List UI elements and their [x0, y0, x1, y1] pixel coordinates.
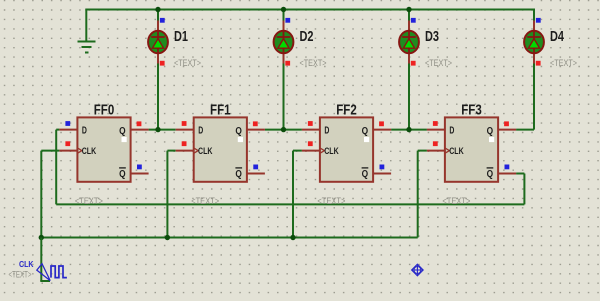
wire FF0 clock riser	[40, 151, 42, 239]
svg-text:CLK: CLK	[324, 146, 339, 156]
svg-text:<TEXT>: <TEXT>	[442, 196, 470, 206]
svg-text:D: D	[449, 125, 454, 137]
FF0 marker CLK pin	[65, 141, 70, 146]
FF1 marker Q pin	[253, 121, 258, 126]
wire D1 top riser	[157, 10, 159, 21]
wire feedback to FF0 D	[56, 129, 59, 131]
LED D1	[148, 21, 168, 64]
wire FF0 clock feed	[41, 150, 59, 152]
FF2 pin Qbar	[373, 173, 391, 175]
wire D3 cathode riser	[408, 64, 410, 130]
FF1 clock triangle	[194, 148, 199, 153]
svg-text:D3: D3	[425, 29, 439, 45]
FF2 clock triangle	[320, 148, 325, 153]
svg-text:<TEXT>: <TEXT>	[191, 196, 219, 206]
FF0 marker Qbar pin (blue)	[137, 165, 142, 170]
junction clock rail	[165, 235, 170, 240]
wire FF0 Q to next stage	[149, 129, 176, 131]
FF2 marker Qbar pin (blue)	[380, 165, 385, 170]
junction rail/D2	[281, 7, 286, 12]
wire D2 top riser	[283, 10, 285, 21]
pin marker D4 anode (blue)	[536, 18, 541, 23]
svg-text:<TEXT>: <TEXT>	[550, 58, 577, 68]
wire FF1 Q to next stage	[265, 129, 302, 131]
FF0 marker D pin	[65, 121, 70, 126]
FF3 marker CLK pin	[433, 141, 438, 146]
svg-text:D1: D1	[174, 29, 188, 45]
FF0 pin Q	[131, 129, 149, 131]
D flip-flop FF1 body	[194, 117, 247, 181]
wire feedback right vertical	[523, 174, 525, 205]
FF1 marker CLK pin	[182, 141, 187, 146]
FF2 pin D	[302, 129, 320, 131]
wire feedback FF3 Qbar stub	[516, 173, 524, 175]
junction node Q0	[155, 127, 160, 132]
FF3 marker D pin	[433, 121, 438, 126]
svg-text:Q: Q	[362, 125, 369, 137]
FF3 pin Qbar	[498, 173, 516, 175]
D flip-flop FF3 body	[445, 117, 498, 181]
svg-text:<TEXT>: <TEXT>	[425, 58, 452, 68]
junction clock rail	[39, 235, 44, 240]
LED D2	[274, 21, 294, 64]
FF0 internal state marker (white)	[122, 137, 127, 142]
svg-text:D: D	[82, 125, 87, 137]
svg-text:FF0: FF0	[94, 103, 115, 119]
FF3 marker Qbar pin (blue)	[505, 165, 510, 170]
junction node Q1	[281, 127, 286, 132]
pin marker D2 anode (blue)	[285, 18, 290, 23]
junction node Q2	[406, 127, 411, 132]
pin marker D1 anode (blue)	[160, 18, 165, 23]
wire FF3 clock riser	[417, 151, 419, 238]
svg-text:<TEXT>: <TEXT>	[300, 58, 327, 68]
FF3 internal state marker (white)	[489, 137, 494, 142]
wire D3 top riser	[408, 10, 410, 21]
junction clock rail	[290, 235, 295, 240]
FF1 pin D	[176, 129, 194, 131]
FF2 marker CLK pin	[308, 141, 313, 146]
svg-text:Q: Q	[487, 125, 494, 137]
svg-text:FF1: FF1	[210, 103, 231, 119]
FF2 pin Q	[373, 129, 391, 131]
wire feedback left vertical	[55, 130, 57, 205]
junction rail/D1	[155, 7, 160, 12]
pin marker D1 cathode (red)	[160, 61, 165, 66]
svg-text:D: D	[324, 125, 329, 137]
LED D3	[399, 21, 419, 64]
FF0 pin D	[59, 129, 77, 131]
wire FF2 clock feed	[293, 150, 302, 152]
pin marker D3 cathode (red)	[411, 61, 416, 66]
FF0 clock triangle	[77, 148, 82, 153]
FF0 pin CLK	[59, 150, 77, 152]
junction rail/D3	[406, 7, 411, 12]
svg-text:D: D	[198, 125, 203, 137]
FF2 internal state marker (white)	[364, 137, 369, 142]
wire clock generator drop	[40, 238, 42, 282]
FF0 pin Qbar	[131, 173, 149, 175]
svg-text:CLK: CLK	[198, 146, 213, 156]
FF1 pin CLK	[176, 150, 194, 152]
svg-text:FF2: FF2	[336, 103, 357, 119]
FF3 pin Q	[498, 129, 516, 131]
clock generator CLK	[37, 264, 67, 281]
svg-text:<TEXT>: <TEXT>	[75, 196, 103, 206]
svg-text:<TEXT>: <TEXT>	[317, 196, 345, 206]
pin marker D3 anode (blue)	[411, 18, 416, 23]
FF3 pin D	[427, 129, 445, 131]
FF1 pin Qbar	[247, 173, 265, 175]
FF1 pin Q	[247, 129, 265, 131]
FF3 marker Q pin	[504, 121, 509, 126]
wire D2 cathode riser	[283, 64, 285, 130]
svg-text:CLK: CLK	[82, 146, 97, 156]
svg-text:Q: Q	[235, 168, 242, 180]
wire D4 cathode riser	[533, 64, 535, 130]
svg-text:Q: Q	[235, 125, 242, 137]
svg-text:D4: D4	[550, 29, 564, 45]
svg-text:<TEXT>: <TEXT>	[9, 270, 32, 280]
FF3 pin CLK	[427, 150, 445, 152]
FF2 marker Q pin	[379, 121, 384, 126]
wire feedback bottom horizontal	[56, 203, 524, 205]
FF1 internal state marker (white)	[238, 137, 243, 142]
FF1 marker Qbar pin (blue)	[253, 165, 258, 170]
wire FF3 Q to next stage	[516, 129, 534, 131]
origin marker	[411, 264, 423, 276]
LED D4	[524, 21, 544, 64]
svg-text:Q: Q	[119, 168, 126, 180]
FF3 clock triangle	[445, 148, 450, 153]
wire FF2 clock riser	[292, 151, 294, 239]
D flip-flop FF0 body	[77, 117, 130, 181]
svg-text:<TEXT>: <TEXT>	[174, 58, 201, 68]
wire FF1 clock riser	[166, 151, 168, 239]
ground	[78, 10, 96, 53]
wire FF2 Q to next stage	[391, 129, 427, 131]
svg-text:Q: Q	[487, 168, 494, 180]
pin marker D4 cathode (red)	[536, 61, 541, 66]
wire clock rail	[41, 237, 417, 239]
svg-text:CLK: CLK	[19, 260, 34, 269]
FF0 marker Q pin	[137, 121, 142, 126]
svg-text:CLK: CLK	[449, 146, 464, 156]
wire FF3 clock feed	[418, 150, 427, 152]
wire D1 cathode riser	[157, 64, 159, 130]
wire D4 top riser corner	[533, 9, 535, 21]
FF1 marker D pin	[182, 121, 187, 126]
FF2 marker D pin	[308, 121, 313, 126]
svg-text:Q: Q	[362, 168, 369, 180]
pin marker D2 cathode (red)	[285, 61, 290, 66]
svg-text:D2: D2	[300, 29, 314, 45]
svg-text:FF3: FF3	[461, 103, 482, 119]
wire FF1 clock feed	[167, 150, 175, 152]
wire top power rail	[85, 9, 534, 11]
D flip-flop FF2 body	[320, 117, 373, 181]
FF2 pin CLK	[302, 150, 320, 152]
svg-text:Q: Q	[119, 125, 126, 137]
